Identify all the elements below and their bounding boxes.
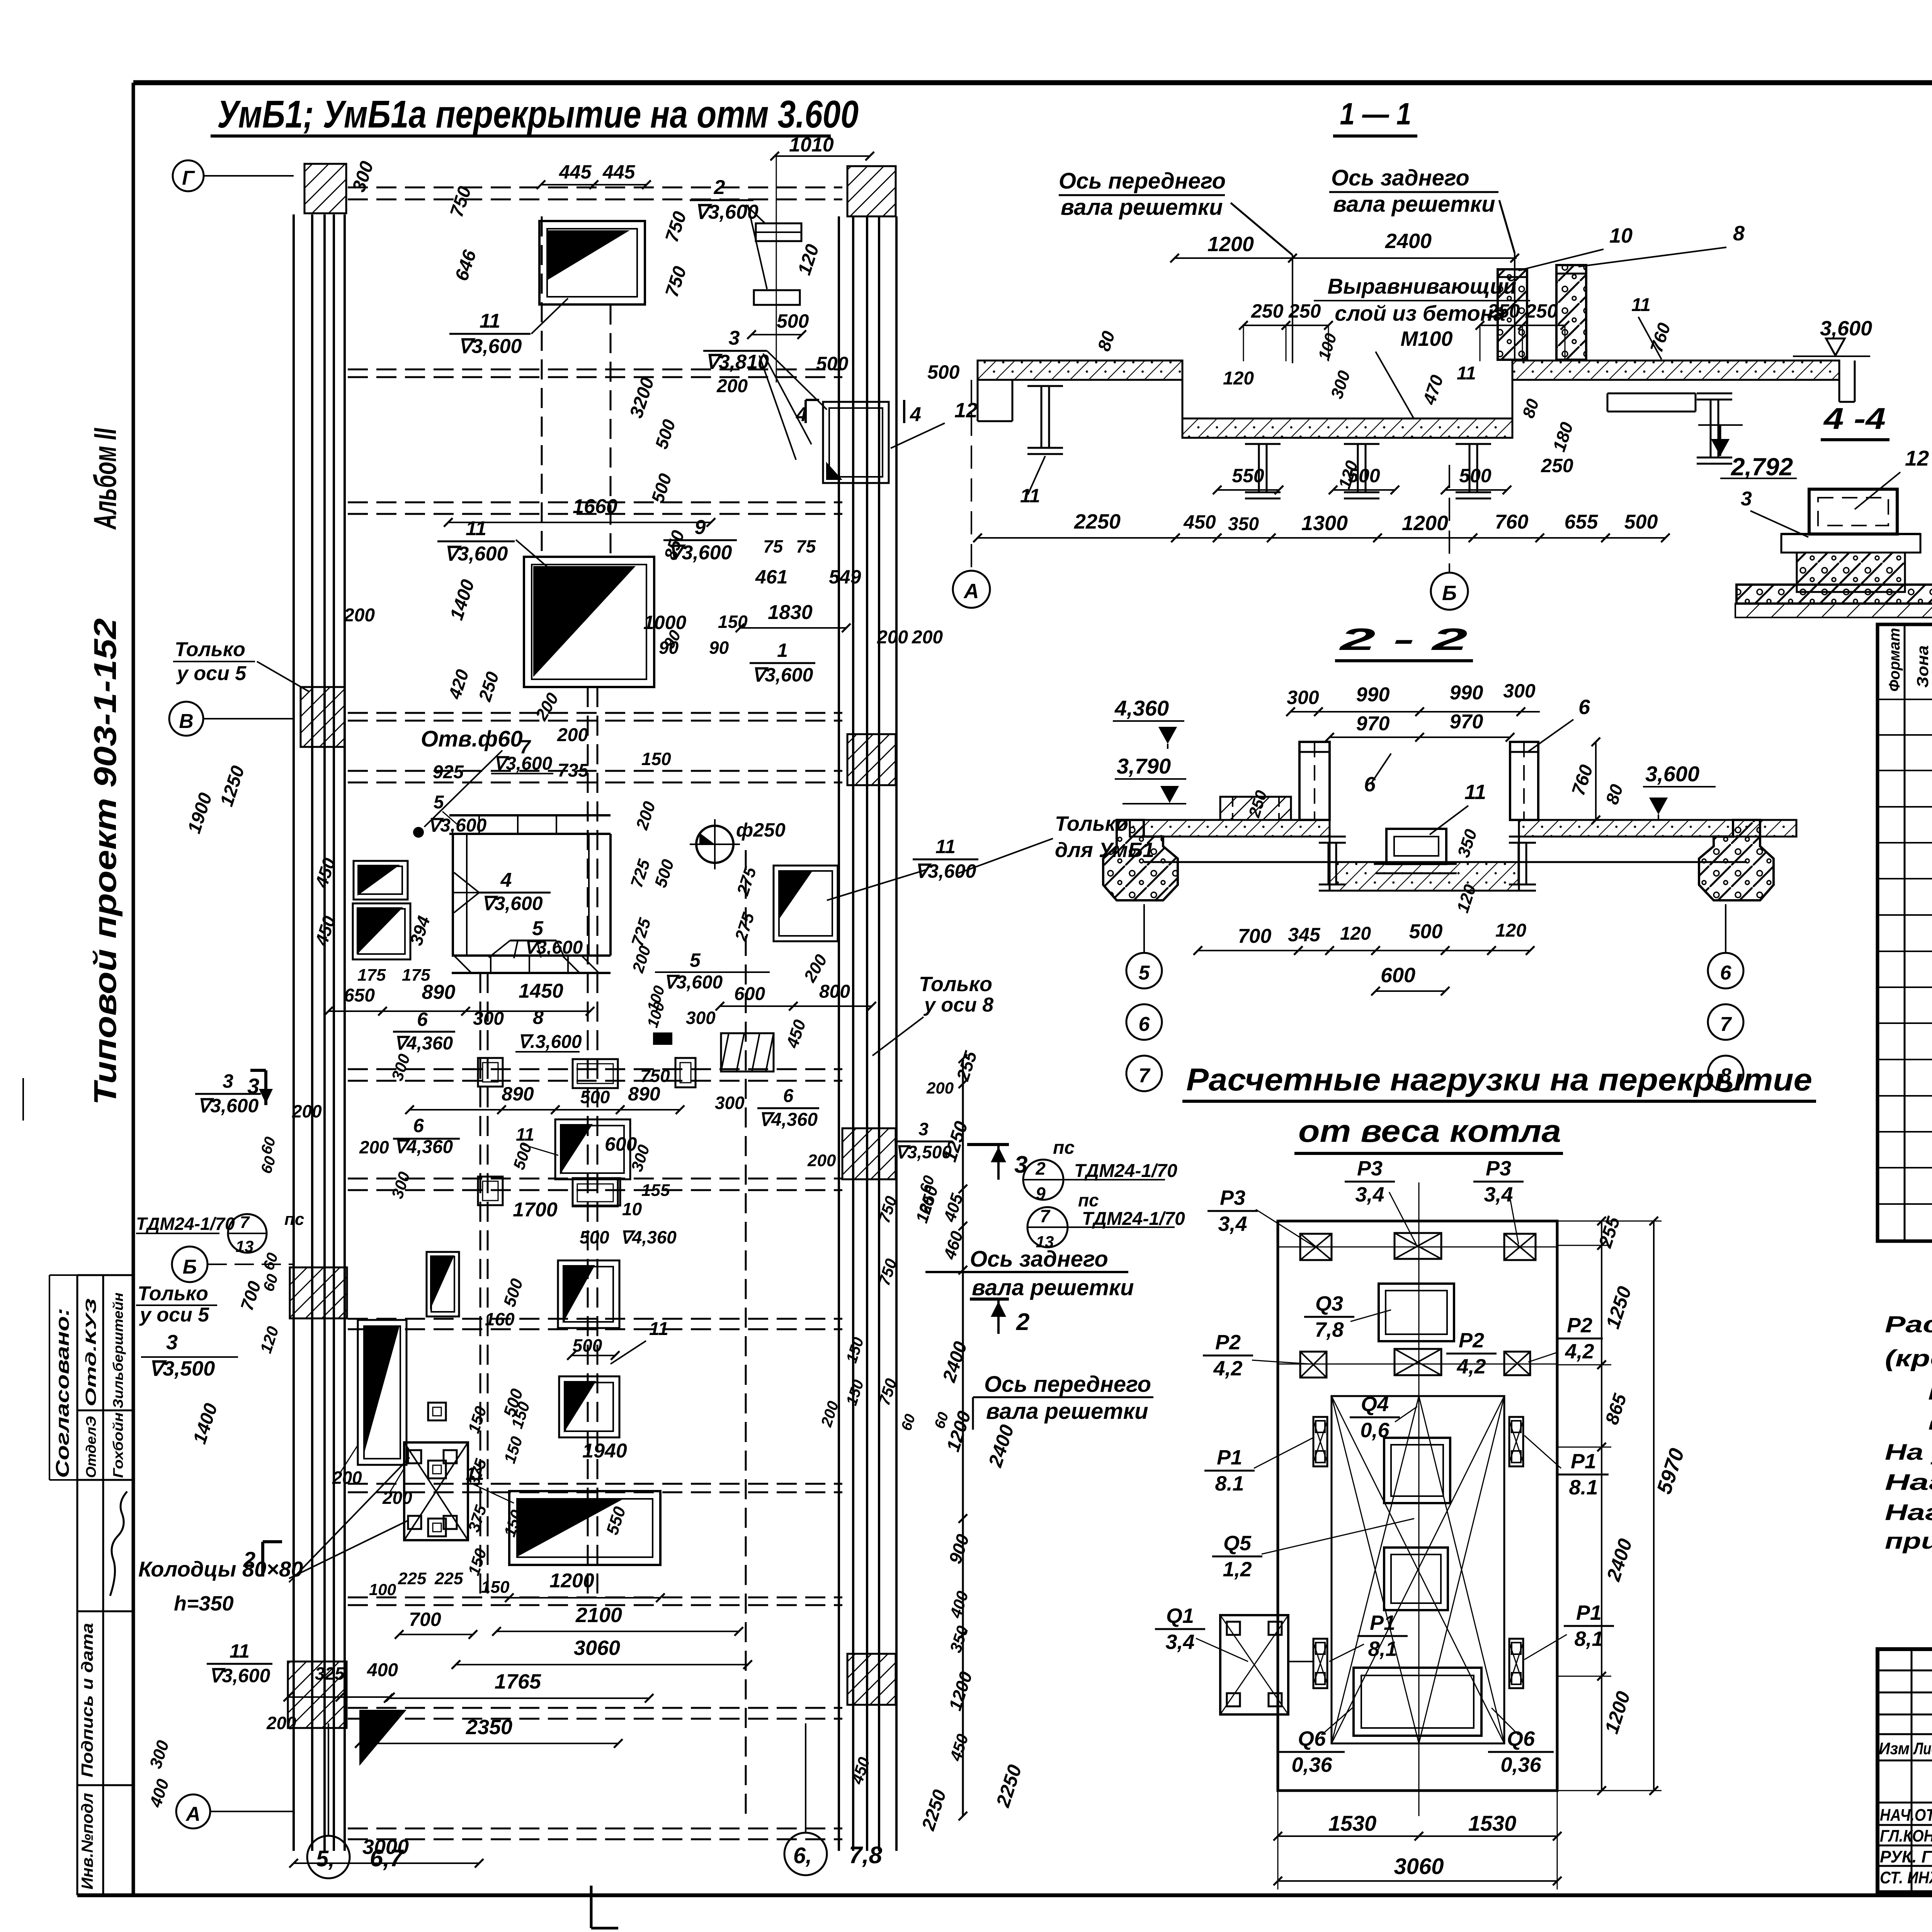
boiler outline <box>1332 1396 1504 1743</box>
svg-text:3: 3 <box>223 1070 233 1092</box>
P2 pads <box>1300 1352 1327 1378</box>
svg-text:Ось переднего: Ось переднего <box>984 1372 1151 1397</box>
svg-text:от веса котла: от веса котла <box>1298 1114 1561 1149</box>
P1 side pads <box>1313 1417 1327 1466</box>
4-4 base slab <box>1736 585 1932 604</box>
svg-text:970: 970 <box>1356 713 1390 735</box>
svg-text:2,792: 2,792 <box>1731 453 1793 481</box>
svg-text:1700: 1700 <box>513 1199 558 1221</box>
svg-text:3,4: 3,4 <box>1218 1212 1247 1235</box>
black triangle bottom-left <box>359 1710 406 1766</box>
svg-text:890: 890 <box>502 1083 534 1105</box>
svg-text:Б: Б <box>183 1256 197 1278</box>
svg-text:500: 500 <box>1348 465 1380 486</box>
svg-text:Ось заднего: Ось заднего <box>1331 165 1469 190</box>
plan horizontal beam dashed lines <box>348 187 842 189</box>
opening O2 mid <box>524 557 654 687</box>
svg-text:200: 200 <box>344 605 375 626</box>
svg-text:Ось переднего: Ось переднего <box>1059 168 1226 194</box>
svg-text:350: 350 <box>1228 514 1259 534</box>
sheet frame <box>133 80 1932 85</box>
svg-text:Р1: Р1 <box>1370 1611 1395 1634</box>
svg-text:6: 6 <box>417 1009 428 1030</box>
4-4 ground hatch <box>1735 604 1932 617</box>
отв ф60 circle <box>413 827 424 838</box>
svg-text:у оси 8: у оси 8 <box>923 994 993 1016</box>
svg-text:175: 175 <box>357 966 386 985</box>
small dark pad <box>653 1032 672 1045</box>
svg-text:2100: 2100 <box>575 1604 622 1627</box>
2-2 slab right <box>1519 820 1796 837</box>
Q1 pad <box>1220 1615 1288 1714</box>
load bottom dims <box>1278 1835 1557 1837</box>
svg-text:Лист: Лист <box>1913 1739 1932 1758</box>
section mark 2 right <box>970 1298 1009 1301</box>
svg-text:500: 500 <box>573 1335 602 1355</box>
inner box B3 <box>1384 1548 1448 1610</box>
svg-text:990: 990 <box>1450 682 1483 704</box>
svg-text:8: 8 <box>1733 222 1745 245</box>
svg-text:120: 120 <box>1495 920 1526 941</box>
opening O1 top <box>539 221 645 304</box>
svg-text:Формат: Формат <box>1886 628 1903 692</box>
inner box B2 <box>1384 1438 1450 1503</box>
svg-text:СТ. ИНЖ.: СТ. ИНЖ. <box>1880 1868 1932 1887</box>
колодцы cluster <box>404 1442 468 1540</box>
svg-text:В: В <box>179 710 194 733</box>
svg-text:250: 250 <box>1288 300 1321 322</box>
svg-text:ГЛ.КОНС.: ГЛ.КОНС. <box>1880 1827 1932 1845</box>
svg-text:1940: 1940 <box>582 1440 627 1462</box>
svg-text:155: 155 <box>641 1181 670 1200</box>
svg-text:∇3,600: ∇3,600 <box>444 543 508 565</box>
svg-text:ТДМ24-1/70: ТДМ24-1/70 <box>136 1214 235 1234</box>
svg-text:∇3,600: ∇3,600 <box>481 893 543 914</box>
svg-text:200: 200 <box>926 1079 954 1097</box>
svg-text:3: 3 <box>1014 1151 1027 1178</box>
svg-text:11: 11 <box>649 1319 668 1339</box>
svg-text:∇4,360: ∇4,360 <box>394 1033 453 1054</box>
svg-text:200: 200 <box>557 725 588 745</box>
axis А <box>176 1794 210 1828</box>
opening 600 box <box>555 1119 630 1179</box>
svg-text:2: 2 <box>714 176 725 199</box>
plan vertical dashed beam lines <box>541 216 543 557</box>
svg-text:500: 500 <box>777 310 809 332</box>
1-1 recess I-beams <box>1245 437 1281 439</box>
svg-text:200: 200 <box>807 1151 836 1170</box>
svg-text:7,8: 7,8 <box>849 1842 883 1869</box>
svg-text:Q3: Q3 <box>1315 1292 1343 1315</box>
svg-text:500: 500 <box>1624 511 1658 533</box>
svg-text:3,4: 3,4 <box>1484 1183 1513 1206</box>
svg-text:300: 300 <box>715 1093 745 1113</box>
svg-text:445: 445 <box>559 161 592 183</box>
2-2 axis circles <box>1143 904 1145 952</box>
svg-text:3,4: 3,4 <box>1165 1630 1194 1653</box>
svg-text:8.1: 8.1 <box>1569 1476 1598 1499</box>
svg-text:11: 11 <box>1457 363 1476 384</box>
svg-text:6: 6 <box>1578 696 1590 719</box>
svg-text:Р2: Р2 <box>1567 1314 1592 1337</box>
svg-text:Г: Г <box>182 167 195 189</box>
svg-text:5: 5 <box>532 917 544 940</box>
svg-text:500: 500 <box>580 1087 610 1107</box>
svg-text:2: 2 <box>1016 1309 1029 1335</box>
svg-text:200: 200 <box>382 1488 412 1508</box>
svg-text:1830: 1830 <box>768 601 813 624</box>
svg-text:8,1: 8,1 <box>1574 1627 1603 1650</box>
svg-text:1200: 1200 <box>1207 233 1254 256</box>
svg-text:Р3: Р3 <box>1357 1157 1383 1180</box>
svg-text:слой из бетона: слой из бетона <box>1335 301 1505 325</box>
2-2 small pier on slab <box>1220 797 1291 820</box>
svg-text:500: 500 <box>580 1227 609 1247</box>
svg-text:пс: пс <box>1078 1190 1099 1210</box>
svg-text:600: 600 <box>1381 964 1415 987</box>
svg-text:600: 600 <box>605 1133 637 1155</box>
svg-text:550: 550 <box>1232 465 1264 486</box>
svg-text:2350: 2350 <box>466 1716 512 1739</box>
svg-text:200: 200 <box>359 1137 389 1157</box>
svg-text:УмБ1; УмБ1а перекрытие на о: УмБ1; УмБ1а перекрытие на отм 3.600 <box>217 93 859 136</box>
svg-text:Зона: Зона <box>1913 645 1932 688</box>
svg-text:Отд.КУЗ: Отд.КУЗ <box>83 1298 99 1406</box>
svg-text:500: 500 <box>1459 465 1492 486</box>
svg-text:НАЧ.ОТД.: НАЧ.ОТД. <box>1880 1806 1932 1825</box>
svg-text:1450: 1450 <box>519 980 563 1002</box>
svg-text:8,1: 8,1 <box>1368 1637 1397 1660</box>
svg-text:ТДМ24-1/70: ТДМ24-1/70 <box>1074 1161 1177 1181</box>
svg-text:1765: 1765 <box>495 1670 541 1693</box>
svg-text:6,: 6, <box>793 1843 812 1868</box>
svg-text:Альбом II: Альбом II <box>88 428 123 530</box>
svg-text:ТДМ24-1/70: ТДМ24-1/70 <box>1082 1209 1185 1229</box>
svg-text:300: 300 <box>1287 687 1319 708</box>
svg-text:3,4: 3,4 <box>1355 1183 1384 1206</box>
svg-text:160: 160 <box>485 1309 515 1329</box>
svg-text:6: 6 <box>1720 962 1732 984</box>
svg-text:150: 150 <box>718 612 748 632</box>
svg-text:300: 300 <box>686 1008 716 1028</box>
svg-text:∇3,600: ∇3,600 <box>493 753 553 774</box>
svg-text:4,2: 4,2 <box>1565 1340 1594 1363</box>
svg-text:2400: 2400 <box>1385 230 1432 253</box>
2-2 recess <box>1330 862 1519 891</box>
svg-text:655: 655 <box>1565 511 1599 533</box>
svg-text:549: 549 <box>829 566 861 588</box>
svg-text:200: 200 <box>292 1101 322 1121</box>
svg-text:вала решетки: вала решетки <box>986 1399 1148 1424</box>
svg-text:Q1: Q1 <box>1166 1604 1194 1628</box>
svg-text:3: 3 <box>166 1331 178 1354</box>
top small solid rects <box>756 223 801 241</box>
svg-text:3,790: 3,790 <box>1117 754 1171 778</box>
svg-text:∇3,500: ∇3,500 <box>895 1142 952 1162</box>
svg-text:∇3,600: ∇3,600 <box>209 1665 270 1687</box>
svg-text:На участке под котлом постоя: На участке под котлом постоянная расчетн… <box>1885 1440 1932 1465</box>
svg-text:1000: 1000 <box>643 612 686 633</box>
svg-text:1: 1 <box>777 639 788 661</box>
2-2 right pier <box>1699 820 1774 900</box>
plan left wall <box>293 214 295 1851</box>
load right dim chain <box>1601 1221 1602 1791</box>
dark filled box left wall <box>358 1320 406 1465</box>
svg-text:4,360: 4,360 <box>1114 696 1169 720</box>
svg-text:3000: 3000 <box>362 1835 409 1859</box>
svg-text:75: 75 <box>796 536 816 556</box>
svg-text:250: 250 <box>1251 300 1284 322</box>
svg-text:Р3: Р3 <box>1220 1186 1245 1209</box>
svg-text:4,2: 4,2 <box>1213 1357 1242 1380</box>
svg-text:75: 75 <box>763 536 784 556</box>
small embed pads <box>478 1058 503 1087</box>
svg-text:временная Р = 1,2 тс/: временная Р = 1,2 тс/м <box>1928 1410 1932 1435</box>
svg-text:Колодцы 80×80: Колодцы 80×80 <box>138 1557 303 1581</box>
svg-text:200: 200 <box>716 376 748 396</box>
svg-text:Расчетные нагрузки на перекр: Расчетные нагрузки на перекрытие <box>1186 1062 1812 1097</box>
svg-text:1530: 1530 <box>1468 1811 1517 1835</box>
svg-text:Выравнивающий: Выравнивающий <box>1328 274 1517 298</box>
svg-text:4 -4: 4 -4 <box>1823 401 1886 435</box>
svg-text:325: 325 <box>315 1663 345 1684</box>
2-2 center box 11 <box>1386 829 1446 864</box>
svg-text:750: 750 <box>640 1066 670 1086</box>
1-1 axis circles <box>971 380 972 571</box>
svg-text:400: 400 <box>367 1660 398 1680</box>
svg-text:500: 500 <box>927 361 960 383</box>
svg-text:11: 11 <box>1631 295 1651 315</box>
svg-text:120: 120 <box>1223 368 1254 389</box>
1-1 right slab band <box>1512 361 1839 380</box>
section mark 1 bottom <box>590 1886 593 1928</box>
svg-text:11: 11 <box>480 310 500 332</box>
svg-text:970: 970 <box>1450 711 1483 733</box>
svg-text:∇3,600: ∇3,600 <box>458 335 522 357</box>
svg-text:Р2: Р2 <box>1459 1329 1484 1352</box>
svg-text:∇.3,600: ∇.3,600 <box>518 1032 582 1052</box>
svg-text:345: 345 <box>1288 924 1321 946</box>
svg-text:250: 250 <box>1541 455 1573 476</box>
svg-text:3060: 3060 <box>574 1636 620 1660</box>
openings left stacked <box>354 861 408 900</box>
svg-text:7,8: 7,8 <box>1315 1318 1344 1341</box>
opening dark A <box>558 1260 619 1328</box>
svg-text:3: 3 <box>1741 488 1752 510</box>
svg-text:8: 8 <box>533 1007 544 1028</box>
svg-text:200: 200 <box>332 1468 362 1488</box>
svg-text:Р1: Р1 <box>1217 1446 1242 1469</box>
svg-text:Инв.№подл: Инв.№подл <box>78 1793 96 1889</box>
svg-text:600: 600 <box>734 984 765 1004</box>
svg-text:приведенную на данном листе: приведенную на данном листе. <box>1885 1529 1932 1554</box>
svg-text:3,600: 3,600 <box>1645 762 1699 786</box>
svg-text:7: 7 <box>240 1213 250 1232</box>
svg-text:700: 700 <box>409 1609 441 1630</box>
svg-text:300: 300 <box>1503 680 1536 702</box>
svg-text:11: 11 <box>516 1124 534 1145</box>
svg-text:1200: 1200 <box>549 1570 594 1592</box>
svg-text:Гохбойн: Гохбойн <box>110 1412 126 1478</box>
1-1 recess slab band <box>1182 418 1512 438</box>
svg-text:Зильберштейн: Зильберштейн <box>110 1293 126 1408</box>
svg-text:11: 11 <box>230 1640 250 1662</box>
title block left grid <box>1911 1649 1913 1892</box>
svg-text:∇3,600: ∇3,600 <box>668 541 732 564</box>
svg-text:Согласовано:: Согласовано: <box>53 1308 73 1478</box>
svg-text:12: 12 <box>954 399 978 422</box>
svg-text:ОтделЭ: ОтделЭ <box>83 1416 99 1478</box>
svg-text:3,600: 3,600 <box>1820 317 1872 340</box>
svg-text:650: 650 <box>344 985 375 1006</box>
svg-text:Отв.ф60: Отв.ф60 <box>421 726 523 752</box>
svg-text:у оси 5: у оси 5 <box>176 662 247 685</box>
4-4 level 2.792 <box>1711 439 1730 456</box>
2-2 stubs <box>1299 742 1330 820</box>
svg-text:h=350: h=350 <box>174 1592 234 1615</box>
svg-text:∇3,600: ∇3,600 <box>197 1095 259 1117</box>
svg-text:11: 11 <box>1464 781 1486 804</box>
1-1 concrete stubs <box>1498 269 1527 360</box>
svg-text:1300: 1300 <box>1301 512 1348 535</box>
section mark 3 right <box>967 1143 1009 1146</box>
inclined beam detail <box>721 1033 774 1071</box>
svg-text:4: 4 <box>500 869 512 891</box>
opening dark B <box>559 1376 619 1437</box>
svg-text:РУК. ГР.: РУК. ГР. <box>1880 1847 1932 1866</box>
svg-text:200: 200 <box>266 1713 296 1733</box>
svg-text:200: 200 <box>912 627 943 648</box>
svg-text:∇4,360: ∇4,360 <box>394 1137 453 1157</box>
svg-text:9: 9 <box>1036 1184 1046 1204</box>
wall hatched blocks <box>304 164 346 213</box>
svg-text:Нагрузка от веса котла: Нагрузка от веса котла см. схему, <box>1885 1500 1932 1525</box>
svg-text:0,36: 0,36 <box>1500 1753 1541 1776</box>
svg-text:∇4,360: ∇4,360 <box>759 1110 818 1130</box>
svg-text:7: 7 <box>1139 1065 1151 1087</box>
opening 4: top band <box>449 814 611 816</box>
svg-text:890: 890 <box>422 981 456 1003</box>
svg-text:∇3,600: ∇3,600 <box>524 937 583 958</box>
svg-text:6: 6 <box>413 1115 424 1136</box>
svg-text:Q6: Q6 <box>1298 1727 1326 1750</box>
svg-text:Только: Только <box>138 1282 208 1305</box>
svg-text:вала решетки: вала решетки <box>1333 192 1495 217</box>
svg-text:461: 461 <box>755 566 787 588</box>
svg-text:10: 10 <box>1609 224 1633 247</box>
svg-text:120: 120 <box>1340 923 1371 944</box>
title block frame <box>1878 1649 1932 1892</box>
svg-text:∇3,810: ∇3,810 <box>705 351 769 373</box>
left margin stamp table <box>77 1275 78 1895</box>
svg-text:4,2: 4,2 <box>1456 1355 1486 1378</box>
svg-text:∇3,600: ∇3,600 <box>664 972 723 993</box>
svg-text:100: 100 <box>369 1580 396 1599</box>
svg-text:А: А <box>963 580 979 603</box>
inner box B4 bottom <box>1354 1668 1481 1736</box>
svg-text:300: 300 <box>473 1009 504 1029</box>
plan right wall <box>838 216 840 1851</box>
2-2 left pier <box>1103 820 1178 900</box>
svg-text:А: А <box>185 1803 201 1825</box>
svg-text:4: 4 <box>910 403 921 426</box>
svg-text:Ось заднего: Ось заднего <box>970 1247 1108 1272</box>
spec table grid <box>1878 624 1932 1241</box>
2-2 slab left <box>1130 820 1330 837</box>
axis 5 bottom <box>307 1836 350 1878</box>
svg-text:Р1: Р1 <box>1576 1601 1602 1624</box>
svg-text:445: 445 <box>602 161 636 183</box>
axis Г <box>173 160 204 191</box>
svg-text:пс: пс <box>1053 1138 1075 1158</box>
P3 pads <box>1300 1234 1332 1260</box>
svg-text:5,: 5, <box>316 1846 335 1871</box>
svg-text:1 — 1: 1 — 1 <box>1340 97 1412 131</box>
svg-text:11: 11 <box>935 836 956 857</box>
svg-text:Б: Б <box>1442 582 1457 605</box>
svg-text:1530: 1530 <box>1328 1811 1377 1835</box>
svg-text:1,2: 1,2 <box>1223 1558 1252 1581</box>
svg-text:вала решетки: вала решетки <box>1061 195 1223 220</box>
svg-text:Q6: Q6 <box>1507 1727 1535 1750</box>
1-1 left slab band <box>978 361 1182 380</box>
svg-text:11: 11 <box>466 1464 484 1484</box>
svg-text:(кроме участка под котлом): (кроме участка под котлом): <box>1885 1345 1932 1371</box>
svg-text:225: 225 <box>398 1569 427 1588</box>
svg-text:150: 150 <box>641 749 671 769</box>
svg-text:5: 5 <box>1139 962 1150 984</box>
axis Б <box>172 1247 207 1282</box>
svg-text:Изм: Изм <box>1879 1739 1910 1758</box>
svg-text:Р3: Р3 <box>1486 1157 1511 1180</box>
svg-text:500: 500 <box>816 353 849 374</box>
svg-text:∇3,500: ∇3,500 <box>149 1357 215 1380</box>
svg-text:5: 5 <box>690 949 701 971</box>
svg-text:90: 90 <box>709 638 729 658</box>
svg-text:11: 11 <box>466 517 486 540</box>
svg-text:2 - 2: 2 - 2 <box>1338 622 1468 656</box>
svg-text:Q4: Q4 <box>1361 1393 1389 1416</box>
svg-text:6: 6 <box>783 1086 794 1106</box>
load outer rect <box>1278 1221 1557 1791</box>
4-4 cap box <box>1809 489 1897 534</box>
svg-text:925: 925 <box>433 762 464 782</box>
svg-text:12: 12 <box>1905 446 1929 470</box>
svg-text:8.1: 8.1 <box>1215 1472 1244 1495</box>
svg-text:890: 890 <box>628 1083 660 1105</box>
svg-text:Только: Только <box>175 638 245 661</box>
svg-text:150: 150 <box>481 1578 510 1597</box>
right wall opening 12 <box>823 402 889 483</box>
svg-text:1660: 1660 <box>573 495 617 518</box>
svg-text:Р2: Р2 <box>1215 1331 1241 1354</box>
plan right dim chain <box>962 1059 964 1816</box>
svg-text:Расчетная нагрузка на плиты: Расчетная нагрузка на плиты Умк1 и Умк1а <box>1885 1311 1932 1337</box>
axis В <box>169 702 203 736</box>
svg-text:6: 6 <box>1364 773 1376 796</box>
opening 11-small right <box>774 866 838 941</box>
svg-text:ф250: ф250 <box>736 819 786 841</box>
svg-text:200: 200 <box>877 627 908 648</box>
svg-text:450: 450 <box>1183 511 1216 533</box>
svg-text:Типовой проект 903-1-152: Типовой проект 903-1-152 <box>88 618 123 1105</box>
svg-text:Q5: Q5 <box>1223 1532 1252 1555</box>
svg-text:∇3,600: ∇3,600 <box>428 815 487 836</box>
svg-text:700: 700 <box>1238 925 1272 947</box>
axis 6 bottom <box>784 1833 827 1875</box>
svg-text:735: 735 <box>558 760 589 781</box>
svg-text:0,6: 0,6 <box>1360 1418 1389 1442</box>
